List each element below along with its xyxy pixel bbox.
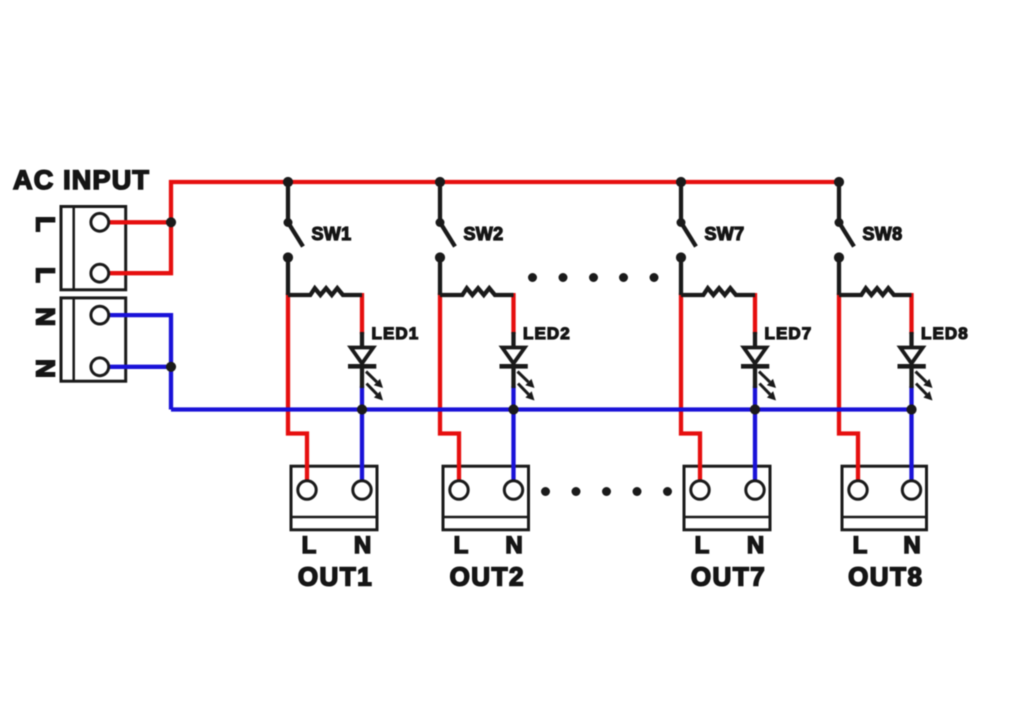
svg-text:L: L bbox=[454, 532, 469, 559]
wire: red R2 output to LED2 anode bbox=[511, 293, 515, 334]
switch SW7 bbox=[676, 218, 696, 263]
resistor R2 bbox=[440, 288, 514, 295]
pin label L (L2) bbox=[31, 267, 61, 283]
LED LED8 bbox=[898, 332, 933, 401]
pin OUT7 L bbox=[691, 481, 709, 499]
terminal block: AC input L (body) bbox=[61, 207, 126, 290]
junction: N feed node bbox=[166, 362, 176, 372]
LED LED1 bbox=[348, 332, 383, 401]
terminal block OUT1 (body) bbox=[291, 466, 377, 530]
svg-text:SW1: SW1 bbox=[312, 224, 352, 244]
pin L2 bbox=[91, 264, 109, 282]
svg-text:N: N bbox=[505, 532, 522, 559]
svg-text:SW2: SW2 bbox=[464, 224, 504, 244]
junction: neutral bus / LED1 bbox=[357, 404, 367, 414]
svg-text:SW7: SW7 bbox=[705, 224, 745, 244]
svg-text:L: L bbox=[853, 532, 868, 559]
wire: red L2 feed up to bus corner bbox=[100, 180, 171, 273]
wire: red switched line SW2 to OUT2 L bbox=[440, 293, 459, 483]
svg-text:OUT8: OUT8 bbox=[848, 561, 923, 591]
wire: red R8 output to LED8 anode bbox=[909, 293, 913, 334]
wire: blue LED8 cathode to neutral bus and OUT8 N bbox=[909, 386, 913, 483]
wire: SW1 lower lead bbox=[286, 258, 290, 296]
switch SW8 bbox=[834, 218, 854, 263]
wire: red switched line SW1 to OUT1 L bbox=[288, 293, 307, 483]
svg-text:N: N bbox=[354, 532, 371, 559]
pin label N (N1) bbox=[31, 307, 61, 326]
pin OUT1 L bbox=[298, 481, 316, 499]
wire: red switched line SW8 to OUT8 L bbox=[839, 293, 858, 483]
junction: supply bus / SW1 bbox=[283, 177, 293, 187]
svg-text:OUT7: OUT7 bbox=[691, 561, 766, 591]
terminal block: AC input N (body) bbox=[61, 298, 126, 381]
svg-text:SW8: SW8 bbox=[863, 224, 903, 244]
svg-text:LED8: LED8 bbox=[921, 324, 969, 343]
svg-text:LED7: LED7 bbox=[765, 324, 813, 343]
pin N1 bbox=[91, 306, 109, 324]
wire: red L1 feed bbox=[100, 220, 171, 224]
svg-text:N: N bbox=[31, 307, 61, 326]
pin label L (L1) bbox=[31, 216, 61, 232]
wire: SW8 upper lead bbox=[837, 182, 841, 223]
svg-text:N: N bbox=[903, 532, 920, 559]
junction: supply bus / SW8 bbox=[834, 177, 844, 187]
switch SW2 bbox=[435, 218, 455, 263]
junction: supply bus / SW7 bbox=[676, 177, 686, 187]
pin OUT7 N bbox=[746, 481, 764, 499]
wire: blue LED7 cathode to neutral bus and OUT7 N bbox=[753, 386, 757, 483]
resistor R1 bbox=[288, 288, 362, 295]
svg-text:AC INPUT: AC INPUT bbox=[13, 165, 150, 195]
pin OUT8 N bbox=[902, 481, 920, 499]
junction: supply bus / SW2 bbox=[435, 177, 445, 187]
wire: SW8 lower lead bbox=[837, 258, 841, 296]
terminal block OUT8 (body) bbox=[842, 466, 927, 530]
svg-text:OUT1: OUT1 bbox=[298, 561, 373, 591]
switch SW1 bbox=[283, 218, 303, 263]
pin label N (N2) bbox=[31, 359, 61, 378]
node: continuation dots (upper row) bbox=[528, 273, 659, 282]
LED LED7 bbox=[741, 332, 776, 401]
pin OUT1 N bbox=[353, 481, 371, 499]
wire: blue N1 feed down left side bbox=[100, 315, 171, 409]
pin OUT8 L bbox=[849, 481, 867, 499]
wire: blue N2 feed bbox=[100, 365, 171, 369]
wire: blue LED2 cathode to neutral bus and OUT2 N bbox=[511, 386, 515, 483]
wire: blue LED1 cathode to neutral bus and OUT1 N bbox=[360, 386, 364, 483]
svg-text:N: N bbox=[31, 359, 61, 378]
junction: L feed node bbox=[166, 217, 176, 227]
terminal block OUT7 (body) bbox=[684, 466, 770, 530]
junction: neutral bus / LED8 bbox=[906, 404, 916, 414]
wire: SW7 lower lead bbox=[679, 258, 683, 296]
svg-text:N: N bbox=[747, 532, 764, 559]
LED LED2 bbox=[500, 332, 535, 401]
resistor R8 bbox=[839, 288, 912, 295]
wire: red switched line SW7 to OUT7 L bbox=[681, 293, 700, 483]
svg-text:L: L bbox=[31, 267, 61, 283]
pin L1 bbox=[91, 213, 109, 231]
resistor R7 bbox=[681, 288, 755, 295]
svg-text:LED2: LED2 bbox=[523, 324, 571, 343]
svg-text:LED1: LED1 bbox=[372, 324, 420, 343]
wire: blue neutral bus bbox=[171, 407, 912, 411]
wire: red top supply bus bbox=[169, 180, 839, 184]
pin N2 bbox=[91, 358, 109, 376]
junction: neutral bus / LED2 bbox=[508, 404, 518, 414]
junction: neutral bus / LED7 bbox=[750, 404, 760, 414]
pin OUT2 L bbox=[450, 481, 468, 499]
svg-text:L: L bbox=[695, 532, 710, 559]
wire: red R7 output to LED7 anode bbox=[753, 293, 757, 334]
wire: red R1 output to LED1 anode bbox=[360, 293, 364, 334]
svg-text:OUT2: OUT2 bbox=[450, 561, 525, 591]
wire: SW2 upper lead bbox=[438, 182, 442, 223]
svg-text:L: L bbox=[302, 532, 317, 559]
wire: SW2 lower lead bbox=[438, 258, 442, 296]
wire: SW7 upper lead bbox=[679, 182, 683, 223]
terminal block OUT2 (body) bbox=[443, 466, 529, 530]
node: continuation dots (lower row) bbox=[541, 487, 672, 496]
svg-text:L: L bbox=[31, 216, 61, 232]
pin OUT2 N bbox=[504, 481, 522, 499]
wire: SW1 upper lead bbox=[286, 182, 290, 223]
